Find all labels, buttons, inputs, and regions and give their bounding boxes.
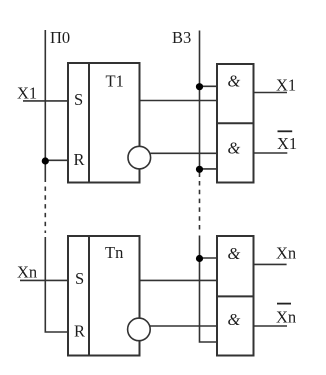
svg-text:B3: B3	[172, 28, 191, 47]
svg-text:П0: П0	[50, 28, 70, 47]
svg-text:&: &	[228, 72, 241, 91]
svg-text:R: R	[74, 150, 85, 169]
svg-text:Xn: Xn	[17, 263, 37, 282]
svg-text:Xn: Xn	[276, 308, 296, 327]
svg-text:S: S	[75, 269, 84, 288]
svg-text:&: &	[228, 139, 241, 158]
svg-text:X1: X1	[276, 75, 296, 94]
svg-text:Xn: Xn	[276, 244, 296, 263]
svg-text:X1: X1	[277, 134, 297, 153]
svg-text:R: R	[74, 322, 85, 341]
svg-text:S: S	[74, 90, 83, 109]
svg-text:&: &	[228, 310, 241, 329]
svg-text:X1: X1	[17, 84, 37, 103]
svg-text:Tn: Tn	[105, 243, 123, 262]
svg-text:&: &	[228, 244, 241, 263]
svg-text:T1: T1	[106, 72, 124, 91]
